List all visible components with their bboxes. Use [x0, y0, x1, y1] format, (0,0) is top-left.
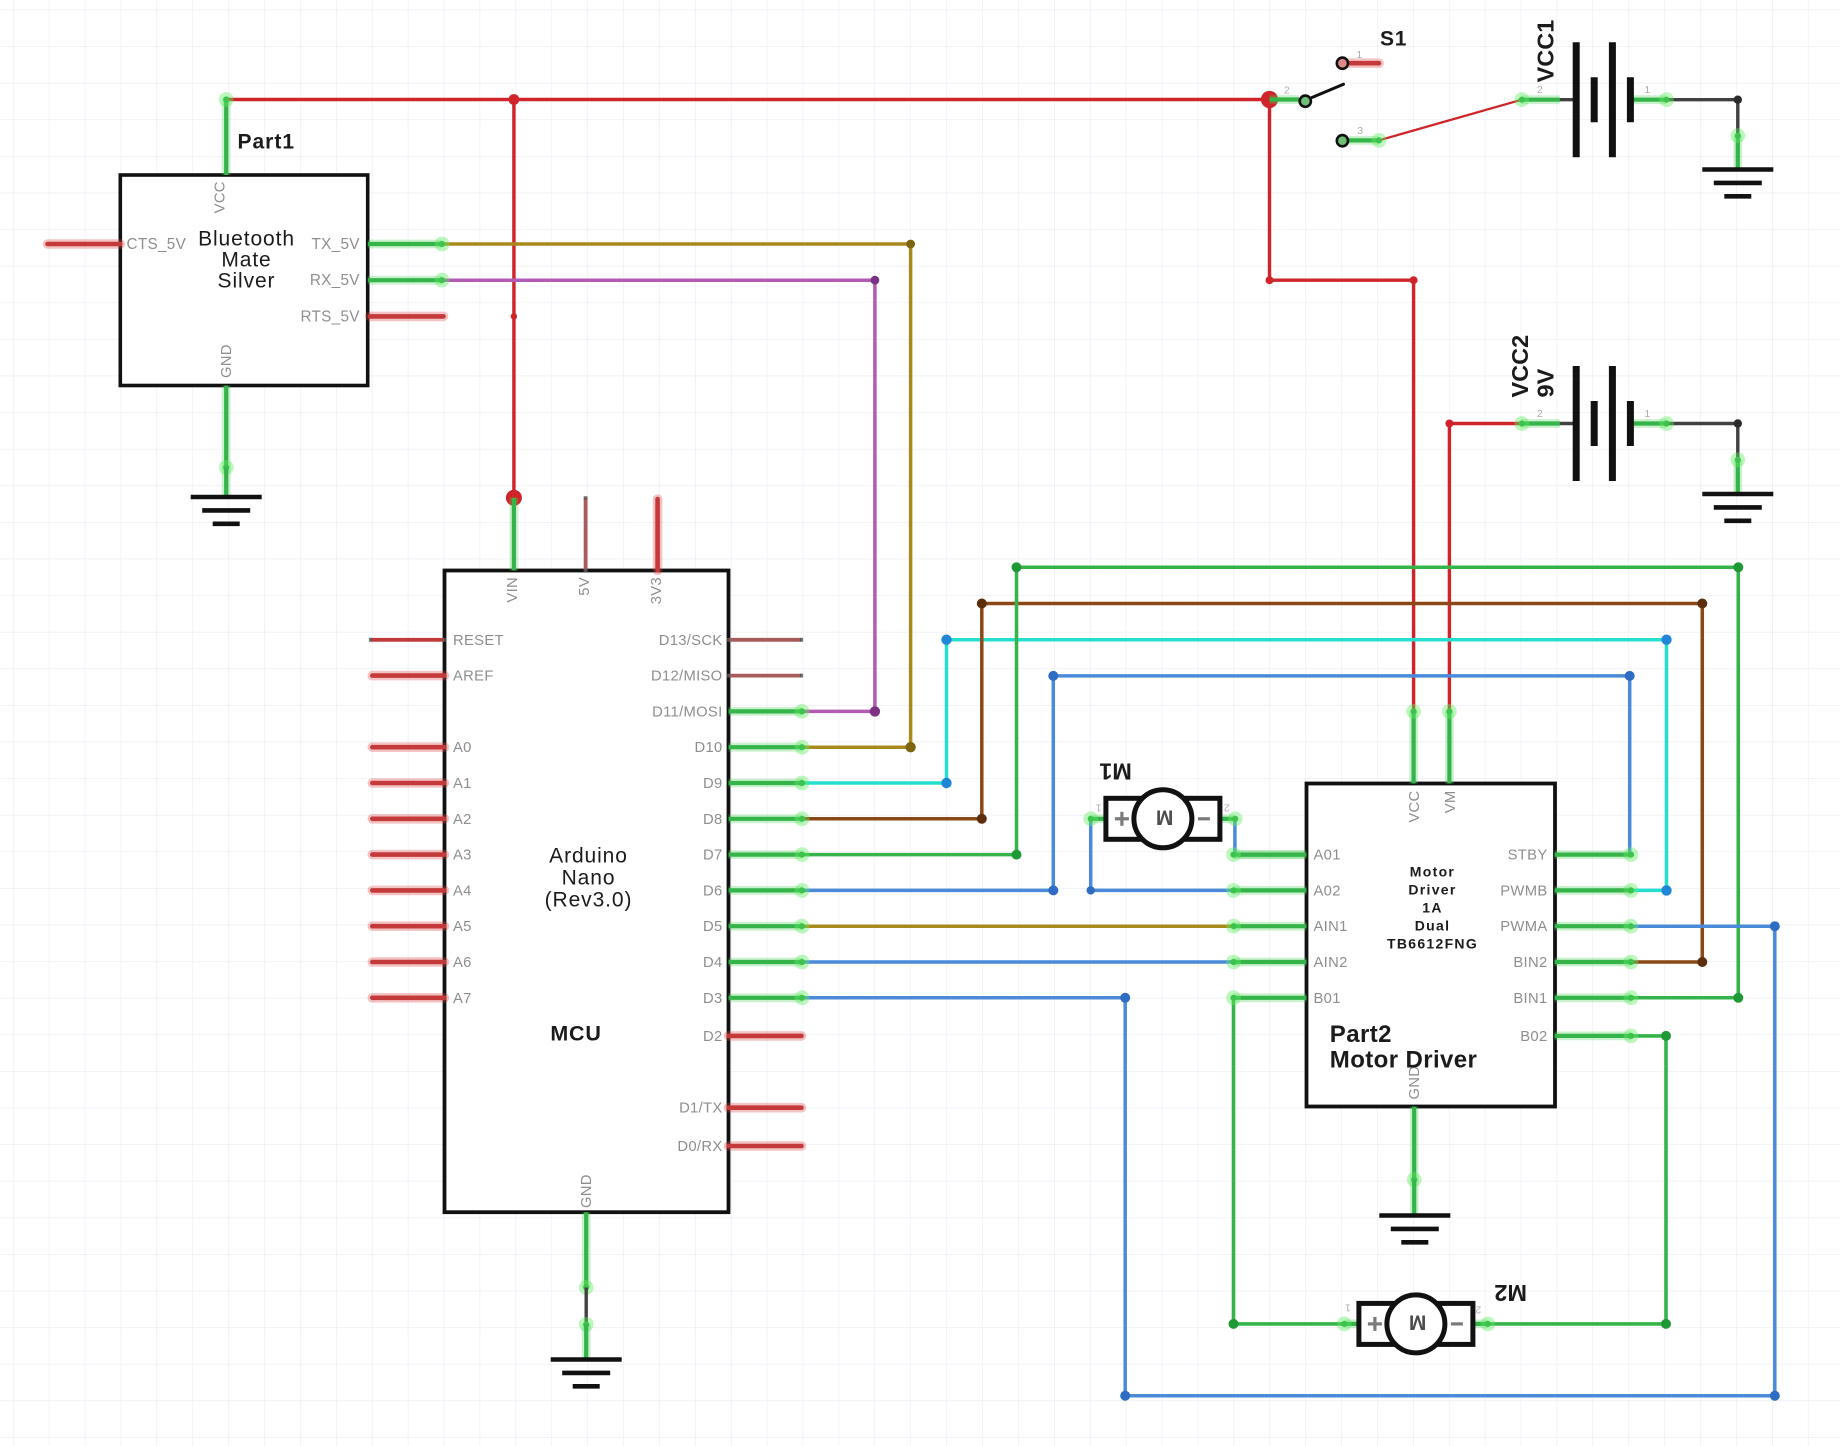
svg-text:GND: GND: [219, 344, 235, 378]
svg-text:A6: A6: [453, 955, 472, 971]
bendpoint green: [1661, 1319, 1671, 1329]
bendpoint green: [1733, 562, 1743, 572]
bendpoint red on VIN drop at RTS row: [511, 313, 517, 319]
svg-text:9V: 9V: [1533, 368, 1559, 397]
svg-text:5V: 5V: [577, 577, 593, 596]
svg-text:A5: A5: [453, 919, 472, 935]
wire olive D5 to AIN1: [802, 924, 1234, 928]
pin D8 green leg: [729, 814, 803, 823]
pin AIN1 green leg: [1234, 922, 1307, 931]
svg-text:VM: VM: [1443, 791, 1459, 814]
motor M1 right leg: [1221, 814, 1235, 823]
wire cyan D9 to PWMB: [802, 640, 1667, 891]
pin D6 green leg: [729, 886, 803, 895]
svg-text:TB6612FNG: TB6612FNG: [1387, 935, 1478, 951]
pin A4 dangling red wire: [372, 886, 444, 896]
S1 pin1 circle: [1337, 58, 1348, 69]
svg-text:Motor: Motor: [1410, 863, 1455, 879]
svg-text:S1: S1: [1380, 28, 1407, 51]
svg-text:A01: A01: [1314, 848, 1341, 864]
pin D1/TX dangling red wire: [729, 1103, 802, 1113]
svg-text:Arduino: Arduino: [549, 845, 628, 868]
svg-text:1: 1: [1644, 408, 1650, 420]
ground below VCC2: [1702, 494, 1773, 521]
svg-text:A7: A7: [453, 991, 472, 1007]
svg-text:PWMA: PWMA: [1500, 919, 1547, 935]
pin AIN2 green leg: [1234, 958, 1307, 967]
motor M1 left leg: [1091, 814, 1107, 823]
pin D5 green leg: [729, 922, 803, 931]
pin VCC of Part1 (green leg up to rail): [222, 100, 231, 176]
pin A2 dangling red wire: [372, 814, 444, 824]
svg-text:Silver: Silver: [218, 270, 276, 293]
pin D2 dangling red wire: [729, 1031, 802, 1041]
wire purple RX_5V to D11: [442, 280, 875, 711]
svg-text:VIN: VIN: [505, 577, 521, 603]
IC Part2 Motor Driver body: [1307, 784, 1556, 1107]
svg-text:1: 1: [1345, 1302, 1351, 1314]
pin GND of Part1 (green wire down): [222, 386, 231, 468]
wire red rail to motor-driver VCC: [1270, 100, 1414, 712]
pin A02 green leg: [1234, 886, 1307, 895]
bendpoint blue: [1048, 885, 1058, 895]
pin STBY green leg: [1555, 850, 1632, 859]
bendpoint cyan: [941, 778, 951, 788]
bendpoint brown: [1697, 957, 1707, 967]
bendpoint gray: [1734, 419, 1742, 427]
pin A0 dangling red wire: [372, 742, 444, 752]
svg-text:Nano: Nano: [562, 867, 616, 890]
pin D7 green leg: [729, 850, 803, 859]
svg-text:B02: B02: [1520, 1029, 1547, 1045]
wire red S1 pin3 to VCC1 plus: [1379, 100, 1522, 141]
svg-text:D0/RX: D0/RX: [677, 1139, 722, 1155]
pin A3 dangling red wire: [372, 850, 444, 860]
svg-text:VCC: VCC: [1407, 791, 1423, 823]
svg-text:STBY: STBY: [1508, 848, 1548, 864]
wire green B01 to M2 plus: [1234, 998, 1345, 1324]
svg-text:D10: D10: [694, 740, 722, 756]
battery VCC1: [1514, 42, 1674, 157]
svg-text:RTS_5V: RTS_5V: [300, 308, 360, 325]
svg-text:Bluetooth: Bluetooth: [198, 228, 295, 251]
svg-text:D7: D7: [703, 848, 723, 864]
bendpoint purple: [871, 276, 880, 285]
svg-text:D11/MOSI: D11/MOSI: [652, 704, 722, 720]
svg-text:2: 2: [1284, 85, 1290, 97]
pin PWMB green leg: [1555, 886, 1632, 895]
pin A01 green leg: [1234, 850, 1307, 859]
wire blue D3 to PWMA: [802, 926, 1775, 1395]
svg-text:D5: D5: [703, 919, 723, 935]
wire blue D6 to STBY: [802, 676, 1630, 891]
bendpoint green: [1661, 1031, 1671, 1041]
svg-text:Dual: Dual: [1415, 917, 1451, 933]
IC MCU Arduino Nano body: [445, 571, 729, 1213]
wire gold TX_5V to D10: [442, 244, 911, 747]
svg-text:Motor Driver: Motor Driver: [1330, 1047, 1478, 1074]
bendpoint purple: [870, 706, 880, 716]
svg-text:VCC: VCC: [213, 181, 229, 213]
pin AREF dangling red wire: [372, 671, 444, 681]
wire red VCC2 to motor-driver VM: [1449, 424, 1521, 712]
svg-text:VCC1: VCC1: [1533, 20, 1559, 83]
bendpoint green: [1012, 562, 1022, 572]
ground below VCC1: [1702, 170, 1773, 197]
svg-text:GND: GND: [579, 1174, 595, 1208]
wire green A01 into driver: [1234, 850, 1307, 859]
svg-text:A2: A2: [453, 812, 472, 828]
svg-text:A4: A4: [453, 883, 472, 899]
svg-text:Driver: Driver: [1408, 881, 1456, 897]
switch S1: [1270, 49, 1387, 148]
motor M2: [1359, 1295, 1473, 1353]
svg-text:RESET: RESET: [453, 633, 504, 649]
S1 pin2 circle: [1300, 96, 1311, 107]
pin B02 green leg: [1555, 1032, 1632, 1041]
motor M2 right leg: [1470, 1320, 1487, 1329]
bendpoint blue: [1770, 1391, 1780, 1401]
svg-text:D8: D8: [703, 812, 723, 828]
pin VIN green leg: [510, 498, 519, 571]
pin B01 green leg: [1234, 993, 1307, 1002]
bendpoint blue: [1770, 921, 1780, 931]
bendpoint brown: [977, 814, 987, 824]
junction dot S1 common: [1261, 91, 1278, 108]
svg-text:Part1: Part1: [238, 131, 296, 154]
svg-text:M2: M2: [1494, 1280, 1527, 1306]
bendpoint red: [1410, 276, 1418, 284]
pin D12/MISO plain leg: [729, 674, 802, 678]
pin VCC driver green leg: [1409, 711, 1418, 783]
wire gray VCC1 minus to ground: [1667, 100, 1738, 136]
svg-text:D12/MISO: D12/MISO: [651, 669, 722, 685]
bendpoint red: [1266, 276, 1274, 284]
wire VCC red top rail: [226, 98, 1269, 101]
svg-text:AIN2: AIN2: [1314, 955, 1348, 971]
svg-text:Part2: Part2: [1330, 1021, 1392, 1048]
svg-text:1A: 1A: [1422, 899, 1443, 915]
pin RESET plain leg: [371, 638, 445, 642]
svg-text:2: 2: [1537, 408, 1543, 420]
svg-text:M: M: [1409, 1310, 1427, 1333]
pin PWMA green leg: [1555, 922, 1632, 931]
bendpoint gold: [905, 742, 915, 752]
svg-text:3: 3: [1357, 125, 1363, 137]
bendpoint gold: [906, 240, 915, 249]
svg-text:Mate: Mate: [221, 249, 271, 272]
svg-text:A1: A1: [453, 776, 472, 792]
junction dot at VIN column on top rail: [509, 94, 520, 105]
bendpoint brown: [977, 599, 987, 609]
bendpoint blue: [1120, 1391, 1130, 1401]
pin RX_5V green leg: [368, 276, 442, 285]
ground below MCU: [551, 1360, 622, 1387]
pin A1 dangling red wire: [372, 778, 444, 788]
wire green D7 to BIN1: [802, 567, 1738, 998]
ground leg VCC2: [1733, 460, 1742, 494]
junction dot VIN: [506, 490, 522, 506]
pin GND MCU green leg / gray wire / ground leg: [582, 1212, 591, 1287]
IC Part1 Bluetooth Mate Silver body: [120, 175, 367, 386]
bendpoint cyan: [941, 635, 951, 645]
bendpoint red: [1445, 420, 1453, 428]
svg-text:D4: D4: [703, 955, 723, 971]
svg-text:TX_5V: TX_5V: [312, 236, 361, 253]
svg-text:M: M: [1156, 805, 1174, 828]
wire red drop to VIN junction: [512, 100, 515, 498]
svg-text:3V3: 3V3: [649, 577, 665, 604]
pin D0/RX dangling red wire: [729, 1141, 802, 1151]
wire blue M1 plus to A02: [1091, 819, 1234, 891]
S1 pin3 green leg: [1349, 136, 1379, 145]
pin 3V3 dangling red wire: [653, 499, 663, 571]
svg-text:A3: A3: [453, 848, 472, 864]
svg-text:A02: A02: [1314, 883, 1341, 899]
S1 pin1 dangling red wire: [1342, 58, 1379, 68]
pin BIN1 green leg: [1555, 993, 1632, 1002]
svg-text:B01: B01: [1314, 991, 1341, 1007]
pin RTS_5V dangling red wire: [370, 312, 444, 322]
motor M2 left leg: [1344, 1320, 1360, 1329]
svg-text:1: 1: [1644, 84, 1650, 96]
wire green B02 to M2 minus: [1488, 1036, 1666, 1324]
pin TX_5V green leg: [368, 240, 442, 249]
svg-text:BIN2: BIN2: [1513, 955, 1547, 971]
bendpoint cyan: [1661, 885, 1671, 895]
bendpoint cyan: [1661, 635, 1671, 645]
ground leg VCC1: [1733, 136, 1742, 170]
svg-text:(Rev3.0): (Rev3.0): [545, 889, 633, 912]
svg-text:D1/TX: D1/TX: [679, 1101, 722, 1117]
bendpoint blue: [1048, 671, 1058, 681]
pin CTS_5V dangling red wire: [48, 239, 121, 249]
bendpoint blue: [1087, 886, 1095, 894]
svg-text:VCC2: VCC2: [1507, 335, 1533, 398]
svg-text:D2: D2: [703, 1029, 723, 1045]
motor M1: [1106, 790, 1220, 848]
svg-text:AREF: AREF: [453, 669, 494, 685]
bendpoint brown: [1697, 599, 1707, 609]
svg-text:RX_5V: RX_5V: [310, 272, 360, 289]
pin D13/SCK plain leg: [729, 638, 802, 642]
bendpoint green: [1012, 850, 1022, 860]
pin GND driver green wire / ground: [1410, 1107, 1419, 1180]
wire blue D4 to AIN2: [802, 960, 1234, 964]
pin A5 dangling red wire: [372, 921, 444, 931]
pin BIN2 green leg: [1555, 958, 1632, 967]
svg-text:AIN1: AIN1: [1314, 919, 1348, 935]
svg-text:2: 2: [1475, 1304, 1481, 1316]
svg-text:D9: D9: [703, 776, 723, 792]
pin D4 green leg: [729, 958, 803, 967]
ground below driver: [1379, 1216, 1450, 1243]
ground below Part1: [191, 497, 262, 524]
pin D9 green leg: [729, 779, 803, 788]
pin 5V plain leg: [584, 498, 588, 571]
bendpoint green: [1733, 993, 1743, 1003]
wire gray VCC2 minus to ground: [1667, 424, 1738, 460]
svg-text:D6: D6: [703, 883, 723, 899]
svg-text:1: 1: [1356, 49, 1362, 61]
wire brown D8 to BIN2: [802, 604, 1702, 963]
svg-text:D13/SCK: D13/SCK: [659, 633, 723, 649]
svg-text:2: 2: [1537, 84, 1543, 96]
pin D10 green leg: [729, 743, 803, 752]
pin VM driver green leg: [1445, 711, 1454, 783]
svg-text:BIN1: BIN1: [1513, 991, 1547, 1007]
svg-text:M1: M1: [1099, 759, 1132, 785]
S1 pin3 circle: [1337, 135, 1348, 146]
wire blue M1 minus to A01: [1233, 819, 1237, 855]
svg-text:A0: A0: [453, 740, 472, 756]
bendpoint gray: [1734, 96, 1742, 104]
pin D3 green leg: [729, 993, 803, 1002]
bendpoint green: [1229, 1319, 1239, 1329]
S1 lever: [1306, 84, 1344, 100]
battery VCC2: [1514, 366, 1674, 481]
svg-text:PWMB: PWMB: [1500, 883, 1547, 899]
svg-text:MCU: MCU: [550, 1022, 601, 1046]
pin D11/MOSI green leg: [729, 707, 803, 716]
svg-text:1: 1: [1095, 802, 1101, 814]
bendpoint blue: [1625, 671, 1635, 681]
bendpoint blue: [1120, 993, 1130, 1003]
svg-text:2: 2: [1224, 802, 1230, 814]
pin A6 dangling red wire: [372, 957, 444, 967]
svg-text:CTS_5V: CTS_5V: [127, 236, 187, 253]
svg-text:D3: D3: [703, 991, 723, 1007]
pin A7 dangling red wire: [372, 993, 444, 1003]
S1 pin2 green leg: [1270, 95, 1300, 104]
